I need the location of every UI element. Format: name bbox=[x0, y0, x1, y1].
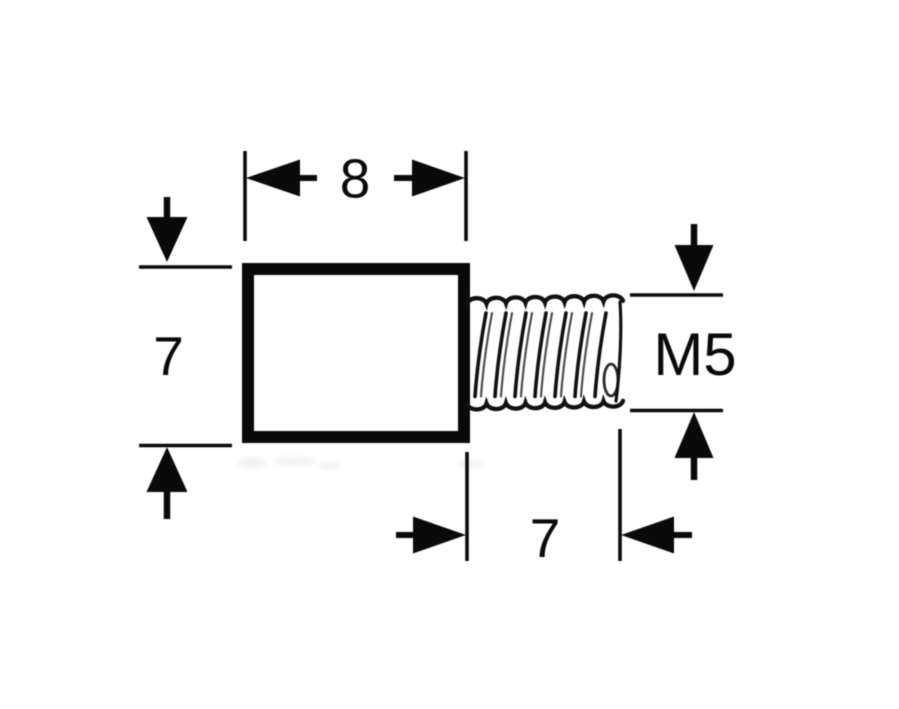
thread right edge bbox=[616, 302, 621, 401]
faint smudge ghost below body bbox=[238, 457, 484, 469]
svg-text:7: 7 bbox=[530, 507, 561, 569]
dimension 7 bottom: left arrow stem bbox=[396, 532, 415, 538]
thread flank line 4 bbox=[535, 313, 546, 397]
dimension M5: top arrow stem bbox=[691, 224, 698, 250]
thread flank line 2 bbox=[495, 313, 506, 397]
dimension M5: bottom extension line bbox=[630, 409, 723, 413]
thread bbox=[467, 295, 623, 409]
dimension 7 left: bottom arrow stem bbox=[164, 487, 171, 519]
dimension 7 bottom: right arrowhead (left-pointing) bbox=[621, 517, 674, 554]
dimension 7 bottom: left extension line bbox=[465, 452, 469, 561]
thread bottom crest edge bbox=[467, 401, 623, 410]
dimension M5: bottom arrowhead (up) bbox=[675, 412, 714, 458]
dimension 7 left: bottom arrowhead (up) bbox=[147, 447, 188, 492]
thread flank line 3 bbox=[515, 313, 526, 397]
svg-text:7: 7 bbox=[153, 325, 184, 387]
svg-text:M5: M5 bbox=[653, 321, 736, 388]
dimension 8: left arrowhead bbox=[246, 160, 300, 197]
dimension 7 left: top extension line bbox=[139, 265, 232, 269]
thread end loop bbox=[604, 364, 618, 396]
dimension 8: left arrow stem bbox=[298, 175, 317, 181]
dimension 8: right arrow stem bbox=[394, 175, 413, 181]
dimension 7 left: top arrowhead (down) bbox=[147, 217, 188, 262]
dimension M5: top extension line bbox=[630, 293, 723, 297]
dimension 8: right extension line bbox=[464, 151, 468, 241]
thread flank line 7 bbox=[595, 313, 606, 397]
body rectangle bbox=[248, 269, 464, 437]
thread flank line 5 bbox=[555, 313, 566, 397]
thread flank line 1 bbox=[475, 313, 486, 397]
dimension 8: left extension line bbox=[243, 151, 247, 241]
dimension M5: top arrowhead (down) bbox=[675, 245, 714, 291]
thread top crest edge bbox=[467, 295, 623, 304]
dimension 8: right arrowhead bbox=[412, 160, 465, 197]
svg-text:8: 8 bbox=[340, 148, 371, 210]
dimension 7 bottom: left arrowhead (right-pointing) bbox=[413, 517, 466, 554]
dimension 7 left: top arrow stem bbox=[164, 197, 171, 225]
thread flank line 6 bbox=[575, 313, 586, 397]
dimension 7 bottom: right extension line bbox=[618, 429, 622, 561]
dimension M5: bottom arrow stem bbox=[691, 454, 698, 480]
dimension 7 left: bottom extension line bbox=[139, 444, 232, 448]
dimension 7 bottom: right arrow stem bbox=[672, 532, 692, 538]
